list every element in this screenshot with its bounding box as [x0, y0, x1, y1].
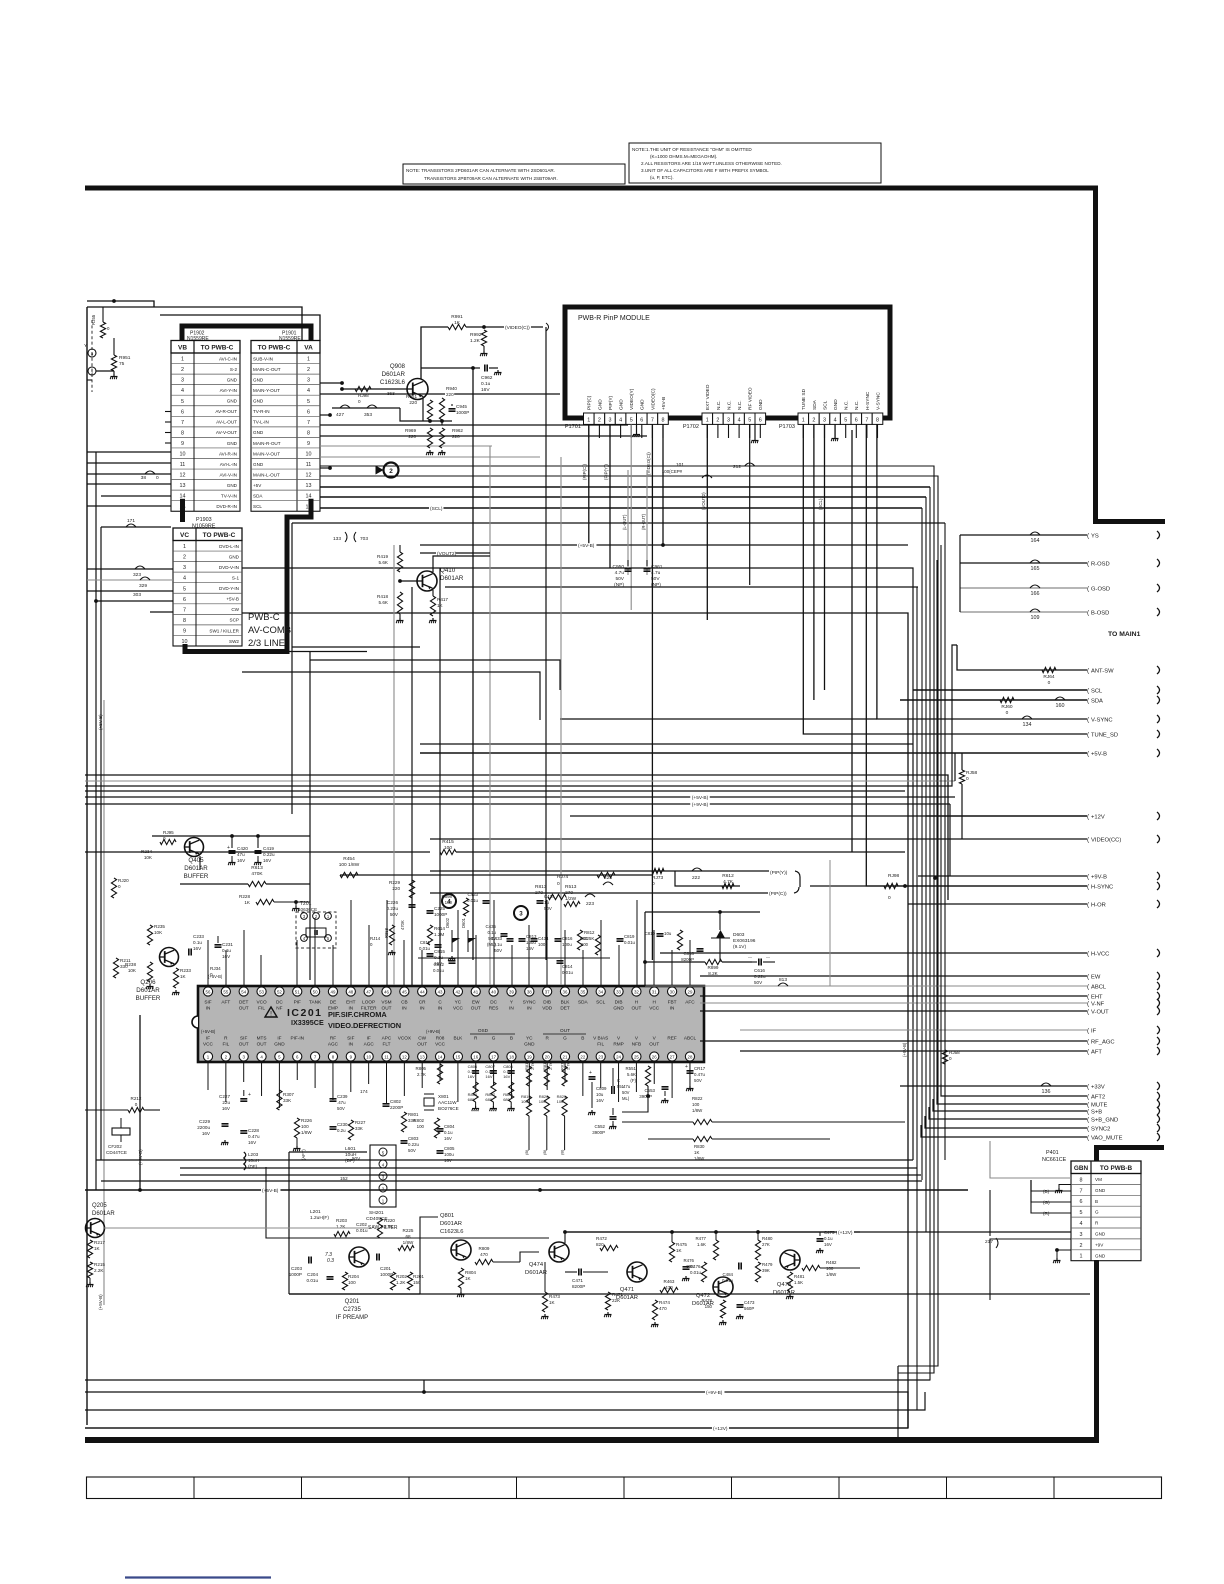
- svg-text:SCP: SCP: [230, 618, 239, 623]
- capacitor C484 0.01u: [738, 1263, 740, 1270]
- capacitor C804 0.1u 16V: [437, 1128, 444, 1130]
- lead H-VCC: [660, 952, 1087, 954]
- svg-text:40: 40: [491, 990, 496, 995]
- svg-text:212: 212: [733, 464, 741, 470]
- svg-text:0.01u: 0.01u: [433, 968, 445, 973]
- svg-text:R229: R229: [389, 880, 400, 885]
- wire right bundle v2: [940, 545, 942, 1084]
- thick top frame line: [85, 186, 1098, 191]
- svg-text:—: —: [766, 954, 770, 959]
- IC201 pin 50 circle: [311, 987, 320, 996]
- svg-text:Q205: Q205: [92, 1203, 107, 1209]
- resistor RJ98 right: [884, 883, 898, 888]
- svg-text:H-SYNC: H-SYNC: [1091, 884, 1113, 890]
- svg-text:0: 0: [358, 399, 361, 404]
- resistor R801 33K: [401, 1112, 406, 1132]
- svg-text:R203: R203: [336, 1218, 347, 1223]
- resistor R612 4.7K in PIP lead: [675, 871, 740, 886]
- svg-text:29: 29: [688, 990, 693, 995]
- svg-text:1K: 1K: [437, 603, 444, 608]
- svg-text:DC: DC: [490, 1000, 497, 1005]
- wire center vertical x490: [489, 446, 491, 985]
- svg-text:2.ALL RESISTORS ARE 1/16 WATT.: 2.ALL RESISTORS ARE 1/16 WATT.UNLESS OTH…: [641, 161, 782, 166]
- ground C229: [224, 1140, 226, 1143]
- svg-text:RF: RF: [330, 1036, 336, 1041]
- svg-text:VAO_MUTE: VAO_MUTE: [1091, 1135, 1123, 1141]
- svg-text:APC: APC: [382, 1036, 392, 1041]
- svg-text:DVD-L-IN: DVD-L-IN: [219, 544, 239, 549]
- svg-text:8200P: 8200P: [572, 1284, 585, 1289]
- svg-text:R962: R962: [452, 428, 463, 433]
- svg-text:R234: R234: [141, 849, 152, 854]
- svg-text:48: 48: [348, 990, 353, 995]
- svg-text:100: 100: [301, 1124, 309, 1129]
- IC201 pin 9 circle: [346, 1052, 355, 1061]
- svg-text:S-2: S-2: [230, 367, 238, 372]
- svg-text:50V: 50V: [544, 906, 552, 911]
- svg-text:6: 6: [759, 417, 762, 423]
- ground R226: [296, 1138, 298, 1146]
- resistor RJ95 0: [160, 839, 176, 844]
- IC201 pin 46 circle: [382, 987, 391, 996]
- wire y1294 rail: [289, 1293, 1090, 1295]
- ceramic filter CF202 CD44TCE: [112, 1128, 130, 1135]
- ground R418: [399, 614, 401, 618]
- resistor R217 1K: [87, 1240, 92, 1258]
- svg-text:B-OSD: B-OSD: [1091, 610, 1109, 616]
- svg-text:150: 150: [413, 1280, 421, 1285]
- wire +5V-B band top: [292, 522, 945, 524]
- svg-text:27: 27: [670, 1055, 675, 1060]
- svg-text:1: 1: [706, 417, 709, 423]
- svg-text:AAC11W: AAC11W: [438, 1100, 457, 1105]
- svg-text:217: 217: [985, 1239, 993, 1245]
- svg-text:16V: 16V: [481, 387, 490, 393]
- thick right frame line: [1093, 188, 1098, 519]
- svg-text:SW1 / KILLER: SW1 / KILLER: [209, 628, 239, 633]
- svg-text:(R-OUT): (R-OUT): [641, 513, 646, 530]
- IC201 pin 34 circle: [596, 987, 605, 996]
- svg-text:6: 6: [1080, 1199, 1083, 1205]
- svg-text:16V: 16V: [485, 1074, 492, 1079]
- svg-text:223: 223: [586, 901, 594, 907]
- svg-text:L203: L203: [248, 1152, 259, 1157]
- resistor R473 1K: [542, 1292, 547, 1312]
- svg-text:2: 2: [812, 417, 815, 423]
- crystal X801 AAC11W BO276CE: [424, 1098, 434, 1106]
- IC201 pin 16 circle: [471, 1052, 480, 1061]
- svg-text:813: 813: [779, 977, 787, 983]
- svg-text:1000P: 1000P: [456, 410, 469, 415]
- svg-text:R802: R802: [414, 1118, 425, 1123]
- svg-text:D601AR: D601AR: [92, 1211, 115, 1217]
- svg-text:GND: GND: [253, 399, 264, 404]
- lead G-OSD: [960, 587, 1087, 589]
- wire YS riser: [959, 535, 961, 612]
- IC201 pin 35 circle: [578, 987, 587, 996]
- wire EXT VIDEO vertical: [706, 424, 708, 620]
- svg-text:Q471: Q471: [620, 1287, 634, 1293]
- PWB-R PinP module box: [565, 307, 890, 418]
- svg-text:GND: GND: [597, 399, 603, 410]
- svg-text:1/8W: 1/8W: [694, 1156, 705, 1161]
- svg-text:H-VCC: H-VCC: [1091, 951, 1109, 957]
- lead V-SYNC jumper: [1022, 716, 1032, 719]
- resistor R226 100 1/8W: [294, 1118, 299, 1138]
- svg-text:AFT: AFT: [1091, 1049, 1102, 1055]
- svg-text:3: 3: [91, 351, 94, 356]
- svg-text:CR: CR: [419, 1000, 426, 1005]
- svg-text:(B): (B): [560, 1149, 565, 1155]
- IC201 pin 29 circle: [685, 987, 694, 996]
- svg-text:C230: C230: [337, 1122, 348, 1127]
- svg-text:2200P: 2200P: [390, 1105, 403, 1110]
- svg-text:VB: VB: [178, 345, 187, 352]
- svg-text:EX063196: EX063196: [733, 938, 756, 944]
- svg-text:YS: YS: [1091, 533, 1099, 539]
- svg-text:50V: 50V: [390, 912, 399, 917]
- svg-text:1: 1: [307, 357, 310, 363]
- wire VIDEO(Y) vertical gray: [630, 424, 632, 610]
- svg-text:5.6K: 5.6K: [627, 1072, 636, 1077]
- wire band2 h3: [85, 645, 957, 786]
- capacitor C945 1000P: [449, 408, 456, 410]
- IC201 pin 18 circle: [507, 1052, 516, 1061]
- svg-text:RJ95: RJ95: [163, 830, 174, 835]
- capacitor C433 0.1u 50V: [507, 938, 514, 940]
- svg-text:46: 46: [384, 990, 389, 995]
- svg-text:OUT: OUT: [649, 1042, 659, 1047]
- resistor R551 5.6K (F): [645, 1066, 650, 1086]
- svg-text:C803: C803: [408, 1136, 419, 1141]
- wire H-SYNC vertical to label: [866, 424, 1087, 886]
- svg-text:133: 133: [333, 536, 341, 542]
- resistor R809 470: [475, 1259, 493, 1264]
- wire into table rows left: [87, 451, 171, 453]
- svg-text:SW2: SW2: [229, 639, 239, 644]
- svg-text:C201: C201: [380, 1266, 391, 1271]
- svg-text:220: 220: [409, 400, 417, 405]
- svg-text:2/3 LINE: 2/3 LINE: [248, 638, 285, 649]
- IC201 pin 12 circle: [400, 1052, 409, 1061]
- svg-text:0: 0: [949, 1056, 952, 1061]
- wire top-left H3 to Q908 base: [160, 315, 320, 341]
- svg-text:R226: R226: [301, 1118, 312, 1123]
- capacitor C227 22u 16V: [243, 1090, 245, 1096]
- svg-text:D602: D602: [445, 917, 450, 928]
- svg-text:427: 427: [336, 412, 344, 418]
- wire TUNE SD vertical to label: [803, 424, 1087, 734]
- svg-text:0.22u: 0.22u: [263, 852, 275, 857]
- svg-text:AVI-C-IN: AVI-C-IN: [219, 356, 237, 361]
- svg-text:47u: 47u: [237, 852, 245, 857]
- resistor R991 1K: [448, 324, 466, 329]
- capacitor C435 0.1 50V ML: [501, 933, 508, 935]
- resistor R201 150: [407, 1272, 412, 1290]
- svg-text:174: 174: [360, 1089, 368, 1094]
- svg-text:16V: 16V: [503, 1074, 510, 1079]
- svg-text:C433: C433: [468, 892, 479, 897]
- svg-text:100: 100: [445, 900, 453, 905]
- svg-text:1K: 1K: [694, 1150, 699, 1155]
- svg-text:R-OSD: R-OSD: [1091, 561, 1110, 567]
- svg-text:ML): ML): [622, 1096, 630, 1101]
- lead SCL out: [913, 689, 1087, 691]
- svg-text:303: 303: [133, 592, 141, 598]
- svg-text:N.C.: N.C.: [854, 400, 860, 410]
- svg-text:(+12V): (+12V): [838, 1230, 853, 1236]
- svg-text:39K: 39K: [762, 1268, 770, 1273]
- svg-text:23: 23: [598, 1055, 603, 1060]
- svg-text:SCL: SCL: [253, 504, 262, 509]
- svg-text:R613: R613: [251, 865, 263, 871]
- svg-text:D601AR: D601AR: [440, 1221, 462, 1227]
- resistor R204 100: [342, 1272, 347, 1290]
- IC201 pin 5 circle: [275, 1052, 284, 1061]
- svg-text:C233: C233: [193, 934, 204, 939]
- svg-text:OSD: OSD: [478, 1028, 489, 1033]
- svg-text:RF VIDEO: RF VIDEO: [748, 387, 754, 410]
- svg-text:+5V-B: +5V-B: [1091, 751, 1107, 757]
- svg-text:TANK: TANK: [309, 1000, 322, 1005]
- svg-text:IF: IF: [1091, 1028, 1097, 1034]
- svg-text:220: 220: [392, 886, 400, 891]
- svg-text:AVI-V-IN: AVI-V-IN: [219, 472, 237, 477]
- leads IF RF_AGC AFT: [740, 1029, 1087, 1031]
- svg-text:0.01u: 0.01u: [690, 1270, 702, 1275]
- resistor R478 150: [720, 1300, 725, 1318]
- svg-text:(+5V-B): (+5V-B): [201, 1029, 216, 1034]
- capacitor C553 3900P: [662, 1086, 669, 1088]
- lead YS: [960, 534, 1087, 536]
- svg-text:2: 2: [716, 417, 719, 423]
- lead R-OSD: [960, 562, 1087, 564]
- svg-text:C239: C239: [337, 1094, 348, 1099]
- svg-text:RB1: RB1: [580, 936, 589, 941]
- wire rail y1168: [180, 1167, 917, 1169]
- svg-text:4: 4: [307, 388, 310, 394]
- svg-text:13: 13: [306, 483, 312, 489]
- lead VIDEO(CC) right: [430, 838, 1087, 840]
- svg-text:(VIDEO(C)): (VIDEO(C)): [505, 325, 530, 331]
- svg-text:0: 0: [210, 972, 213, 977]
- svg-text:1: 1: [183, 544, 186, 550]
- svg-text:0: 0: [135, 1102, 138, 1107]
- svg-text:RMP: RMP: [613, 1042, 623, 1047]
- transistor Q405 D601AR BUFFER: [185, 838, 204, 857]
- ground R215: [89, 1278, 91, 1282]
- svg-text:AFT2: AFT2: [1091, 1094, 1105, 1100]
- svg-text:1000P: 1000P: [434, 912, 447, 917]
- wire PIP(C) vertical: [588, 424, 590, 545]
- svg-text:0.01u: 0.01u: [624, 940, 636, 945]
- svg-text:C231: C231: [222, 942, 233, 947]
- IC201 pin 10 circle: [364, 1052, 373, 1061]
- svg-text:16V: 16V: [468, 1074, 475, 1079]
- IC201 pin 40 circle: [489, 987, 498, 996]
- svg-text:16V: 16V: [444, 1158, 452, 1163]
- marker circle 4: [442, 894, 456, 908]
- thick line to P401: [1094, 1145, 1099, 1161]
- svg-text:10uH: 10uH: [345, 1152, 357, 1158]
- svg-text:C962: C962: [481, 375, 493, 381]
- svg-text:OUT: OUT: [239, 1042, 249, 1047]
- svg-text:160: 160: [1056, 703, 1065, 709]
- svg-text:+: +: [227, 845, 230, 851]
- wire R-OUT vertical: [646, 470, 648, 575]
- capacitor C433 0.01u: [483, 900, 490, 902]
- svg-text:4: 4: [738, 417, 741, 423]
- svg-text:D601AR: D601AR: [525, 1270, 547, 1276]
- svg-text:2: 2: [181, 367, 184, 373]
- svg-text:680: 680: [485, 1097, 492, 1102]
- wire center vertical x473: [472, 368, 474, 960]
- svg-text:(R): (R): [1043, 1211, 1050, 1216]
- svg-text:G: G: [1095, 1210, 1099, 1215]
- IC201 pin 3 circle: [239, 1052, 248, 1061]
- svg-text:FIL: FIL: [597, 1042, 604, 1047]
- svg-text:R454: R454: [343, 856, 355, 862]
- svg-text:C553: C553: [645, 1088, 656, 1093]
- svg-text:2.7K: 2.7K: [417, 1072, 426, 1077]
- svg-text:C616: C616: [754, 968, 765, 973]
- svg-text:680: 680: [503, 1097, 510, 1102]
- svg-text:703: 703: [360, 536, 368, 542]
- svg-text:171: 171: [127, 518, 135, 524]
- svg-text:R479: R479: [762, 1262, 773, 1267]
- resistor R477 1.6K: [713, 1240, 718, 1260]
- svg-text:(+5V-B): (+5V-B): [98, 1294, 103, 1310]
- IC201 pin 24 circle: [614, 1052, 623, 1061]
- IC201 pin 28 circle: [685, 1052, 694, 1061]
- svg-text:100u: 100u: [538, 942, 548, 947]
- svg-text:MAIN-Y-OUT: MAIN-Y-OUT: [253, 388, 280, 393]
- svg-text:4: 4: [183, 576, 186, 582]
- svg-text:R809: R809: [479, 1246, 490, 1251]
- lead PIP(Y): [430, 870, 769, 872]
- lead +33V: [900, 1085, 1087, 1087]
- IC201 pin 51 circle: [293, 987, 302, 996]
- svg-text:1: 1: [802, 417, 805, 423]
- svg-text:IF: IF: [277, 1036, 281, 1041]
- svg-text:CR17: CR17: [694, 1066, 706, 1071]
- svg-text:10K: 10K: [154, 930, 163, 935]
- wire 217 vertical: [989, 1190, 991, 1236]
- svg-text:R951: R951: [119, 355, 131, 361]
- resistor R962 220: [439, 428, 444, 448]
- capacitor C813 100u 16V: [519, 938, 526, 940]
- wire Q405 emitter down: [199, 856, 201, 870]
- svg-text:MAIN-C-OUT: MAIN-C-OUT: [253, 367, 281, 372]
- svg-text:GND: GND: [253, 462, 264, 467]
- svg-text:VIDEO(Y): VIDEO(Y): [629, 388, 635, 410]
- wire row11 dot: [320, 467, 330, 469]
- capacitor C475 0.1u 16V: [817, 1238, 824, 1240]
- resistor R418 5.6K: [397, 592, 402, 614]
- svg-text:C950: C950: [613, 564, 625, 570]
- ground C419: [257, 856, 259, 860]
- svg-text:30: 30: [670, 990, 675, 995]
- wire stubs table1 rows 6-9: [165, 411, 171, 413]
- svg-text:R476: R476: [684, 1258, 695, 1263]
- svg-text:C226: C226: [387, 900, 398, 905]
- svg-text:X801: X801: [438, 1094, 449, 1099]
- svg-text:SDA: SDA: [812, 399, 818, 410]
- wire bundle bottom loops: [897, 1366, 899, 1439]
- svg-text:1: 1: [1080, 1254, 1083, 1260]
- wire +5V-B labelled: [420, 544, 908, 546]
- resistor R969 220: [427, 428, 432, 448]
- svg-text:SDA: SDA: [1091, 698, 1103, 704]
- wire band h3: [242, 568, 913, 1160]
- resistor R307 33K: [277, 1090, 282, 1110]
- resistor R235 10K: [147, 925, 152, 945]
- svg-text:V-NF: V-NF: [1091, 1001, 1105, 1007]
- svg-text:MTS: MTS: [257, 1036, 267, 1041]
- svg-text:FILTER: FILTER: [361, 1006, 377, 1011]
- wire left bus vertical C: [100, 527, 102, 1160]
- svg-text:AV-R-OUT: AV-R-OUT: [215, 409, 237, 414]
- svg-text:C552: C552: [595, 1124, 606, 1129]
- svg-text:3: 3: [519, 911, 523, 918]
- wire band2 h1: [85, 775, 948, 900]
- capacitor C814 0.01u: [557, 960, 564, 962]
- svg-text:100u: 100u: [562, 942, 572, 947]
- svg-text:C: C: [617, 1078, 620, 1083]
- svg-text:4.7u: 4.7u: [615, 570, 625, 576]
- svg-text:C471: C471: [572, 1278, 583, 1283]
- svg-text:12: 12: [306, 473, 312, 479]
- svg-text:8: 8: [876, 417, 879, 423]
- svg-text:3: 3: [727, 417, 730, 423]
- diode D603 EX063196: [716, 930, 725, 938]
- svg-text:13: 13: [420, 1055, 425, 1060]
- svg-text:R227: R227: [355, 1120, 366, 1125]
- svg-text:GBN: GBN: [1074, 1165, 1089, 1172]
- svg-text:(DF): (DF): [248, 1164, 258, 1169]
- svg-text:(+12V): (+12V): [713, 1426, 728, 1432]
- svg-text:C1623L6: C1623L6: [380, 379, 406, 386]
- resistor R992 1.2K: [481, 330, 486, 346]
- svg-text:8: 8: [183, 618, 186, 624]
- svg-text:(u, P, ETC).: (u, P, ETC).: [650, 175, 674, 180]
- svg-text:Q410: Q410: [440, 567, 456, 574]
- wire right bundle v3: [936, 560, 938, 1092]
- svg-text:YC: YC: [455, 1000, 462, 1005]
- svg-text:4: 4: [181, 388, 184, 394]
- wire row8 gnd stub: [320, 414, 330, 416]
- wire row14 left: [101, 495, 171, 497]
- svg-text:363: 363: [387, 391, 395, 396]
- svg-text:0.22u: 0.22u: [754, 974, 766, 979]
- svg-text:42: 42: [455, 990, 460, 995]
- resistor R480 27K: [755, 1240, 760, 1260]
- svg-text:13: 13: [180, 483, 186, 489]
- svg-text:VCOX: VCOX: [398, 1036, 412, 1041]
- jumper RJ74 0: [485, 874, 652, 876]
- svg-text:51: 51: [295, 990, 300, 995]
- svg-text:0: 0: [888, 895, 891, 901]
- svg-text:R481: R481: [794, 1274, 805, 1279]
- svg-text:55: 55: [223, 990, 228, 995]
- svg-text:27K: 27K: [762, 1242, 770, 1247]
- svg-text:10636CE: 10636CE: [298, 907, 317, 912]
- svg-text:VCO: VCO: [256, 1000, 267, 1005]
- connector table P1902 VB TO PWB-C: [171, 341, 240, 354]
- capacitor C203 1000P: [308, 1257, 310, 1264]
- wire VIDEO(CC) riser: [961, 816, 963, 839]
- svg-text:SDA: SDA: [578, 1000, 589, 1005]
